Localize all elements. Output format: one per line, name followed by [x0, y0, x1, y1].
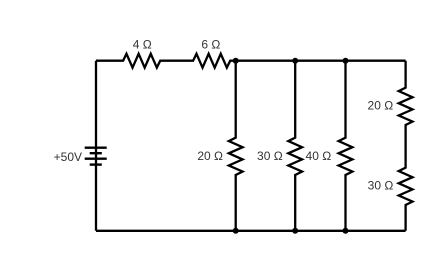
svg-text:30 Ω: 30 Ω [368, 179, 394, 193]
svg-text:20 Ω: 20 Ω [197, 149, 223, 163]
svg-text:40 Ω: 40 Ω [306, 149, 332, 163]
svg-text:+50V: +50V [54, 150, 82, 164]
svg-text:20 Ω: 20 Ω [368, 99, 394, 113]
svg-text:6 Ω: 6 Ω [201, 37, 220, 51]
svg-text:4 Ω: 4 Ω [133, 37, 152, 51]
svg-text:30 Ω: 30 Ω [257, 149, 283, 163]
